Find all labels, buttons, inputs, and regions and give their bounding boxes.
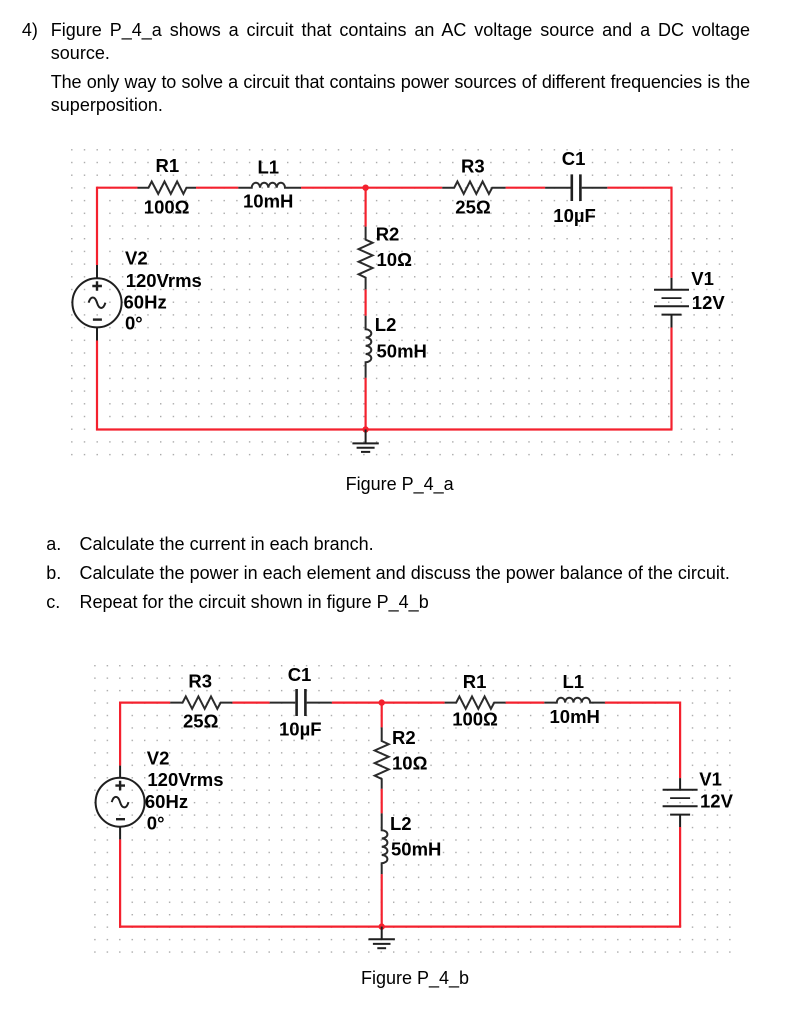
resistor R2 (B) [375,727,389,874]
svg-text:100Ω: 100Ω [452,709,498,730]
svg-text:10Ω: 10Ω [377,249,413,270]
svg-text:25Ω: 25Ω [455,196,491,217]
junction node A top [362,185,368,191]
list item c [46,593,60,611]
svg-text:10mH: 10mH [550,706,600,727]
wire B top 4 [506,701,545,703]
svg-text:L1: L1 [563,671,585,692]
wire A left lower [96,341,98,431]
svg-text:50mH: 50mH [391,839,441,860]
wire A top 2 [196,187,238,189]
svg-text:120Vrms: 120Vrms [147,769,223,790]
capacitor C1 (B) plates [297,689,306,716]
resistor R1 (A) [138,182,197,194]
svg-text:L2: L2 [390,813,412,834]
inductor L1 (A) [238,183,301,188]
wire A middle between R2 and L2 [365,289,367,315]
ground (A) [352,430,378,452]
wire B left lower [119,839,121,927]
svg-text:C1: C1 [562,148,586,169]
wire A left upper [96,187,98,265]
paragraph line 3 [51,73,750,91]
list item a [46,535,61,553]
DC source V1 (B) [663,778,698,827]
svg-text:12V: 12V [692,292,726,313]
grid of circuit A [71,149,734,456]
svg-text:R1: R1 [463,671,487,692]
caption figure A [346,475,454,493]
wire B bottom [119,925,681,927]
resistor R3 (B) [170,696,232,708]
AC source V2 (A) [72,265,121,341]
svg-text:R1: R1 [156,155,180,176]
ground (B) [369,927,395,949]
svg-text:L2: L2 [375,314,397,335]
svg-text:10µF: 10µF [553,205,596,226]
svg-text:60Hz: 60Hz [124,292,167,313]
svg-text:R3: R3 [461,155,485,176]
inductor L1 (B) [544,698,605,703]
svg-text:R3: R3 [188,670,212,691]
paragraph line 4 [51,96,163,114]
capacitor C1 (A) leads [545,187,607,189]
wire B right lower [679,827,681,927]
svg-text:R2: R2 [392,727,416,748]
paragraph line 2 [51,44,110,62]
svg-text:10µF: 10µF [279,719,322,740]
svg-text:12V: 12V [700,791,734,812]
problem number [22,21,38,39]
svg-text:10mH: 10mH [243,191,293,212]
svg-text:V2: V2 [125,247,148,268]
svg-text:10Ω: 10Ω [392,753,428,774]
wire A top 1 [97,187,138,189]
AC source V2 (B) [96,766,145,840]
svg-text:100Ω: 100Ω [144,197,190,218]
resistor R2 (A) [359,227,373,378]
svg-text:V2: V2 [147,748,170,769]
list item b [46,564,61,582]
svg-text:60Hz: 60Hz [145,791,188,812]
paragraph line 1 [51,21,750,39]
capacitor C1 (B) leads [270,702,332,704]
DC source V1 (A) [654,278,689,328]
wire B top 3 [332,701,445,703]
junction node B bottom [379,923,385,929]
wire A right upper [670,187,672,278]
svg-text:R2: R2 [376,223,400,244]
svg-text:50mH: 50mH [377,341,427,362]
wire A bottom [96,428,673,430]
inductor L2 (B) [382,813,388,874]
wire B left upper [119,702,121,766]
junction node A bottom [362,426,368,432]
wire A right lower [670,328,672,430]
wire A top 4 [506,187,545,189]
inductor L2 (A) [366,316,372,378]
junction node B top [379,699,385,705]
svg-text:C1: C1 [288,664,312,685]
wire B top 5 [605,701,680,703]
wire B top 1 [120,701,170,703]
wire A middle upper [365,188,367,227]
wire B middle between R2 and L2 [381,789,383,814]
resistor R3 (A) [442,182,505,194]
resistor R1 (B) [445,696,506,708]
svg-text:0°: 0° [147,812,165,833]
wire A top 5 [607,187,671,189]
svg-text:0°: 0° [125,312,143,333]
svg-text:120Vrms: 120Vrms [126,270,202,291]
grid of circuit B [94,665,732,954]
wire B middle lower [381,874,383,927]
svg-text:25Ω: 25Ω [183,710,219,731]
svg-text:L1: L1 [258,157,280,178]
wire A middle lower [365,378,367,430]
svg-text:V1: V1 [699,768,722,789]
wire B top 2 [232,701,269,703]
wire B right upper [679,702,681,779]
wire B middle upper [381,703,383,728]
svg-text:V1: V1 [691,268,714,289]
caption figure B [361,969,469,987]
wire A top 3 [301,187,442,189]
capacitor C1 (A) plates [572,174,581,201]
